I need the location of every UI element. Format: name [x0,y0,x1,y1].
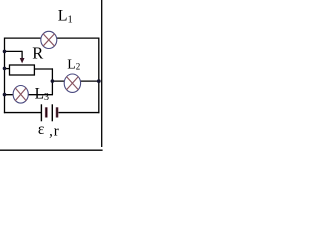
wire wiper tap horizontal [4,50,22,52]
battery cell plate long 2 [51,104,53,121]
lamp L3 [13,86,28,104]
svg-text:,: , [49,124,53,140]
resistor R box (rheostat) [10,65,35,75]
junction dot L3 row [3,93,7,97]
junction dot wiper tap [3,50,7,54]
svg-text:R: R [32,44,43,63]
wire stub left of R box [5,68,10,70]
wire bottom left to battery [4,112,42,114]
wire wiper shaft vertical [21,51,23,59]
wire L2 row [52,80,98,82]
wire stub right of R box to mid vertical [34,68,53,70]
wire left [4,38,6,114]
wire mid vertical [51,68,53,94]
wiper arrowhead [20,58,25,63]
wire L3 row [5,94,54,96]
lamp L2 [64,74,80,92]
wire right [98,38,100,114]
svg-text:ε: ε [38,121,45,138]
battery cell plate long 1 [40,104,42,121]
svg-text:r: r [54,124,59,140]
lamp L1 [41,31,57,48]
battery cell plate short 1 [45,107,48,117]
wire bottom right from battery [57,112,100,114]
wire top [5,37,99,39]
junction dot right L2 [97,79,101,83]
border bottom [0,149,103,151]
junction dot mid L2 [51,79,55,83]
border right [101,0,103,147]
junction dot R row [3,67,7,71]
battery cell plate short 2 [56,107,59,117]
